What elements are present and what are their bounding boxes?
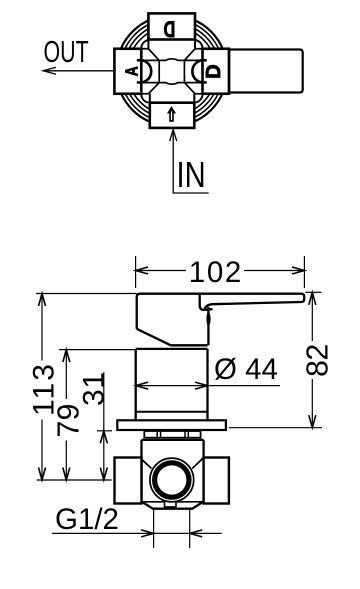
arrow 79 top [63, 350, 70, 363]
svg-text:Ø 44: Ø 44 [214, 353, 278, 386]
dim line 79 [65, 350, 67, 480]
svg-text:D: D [163, 16, 175, 41]
svg-text:IN: IN [177, 154, 206, 195]
inner band edge lines [141, 49, 202, 94]
cap chamfer [137, 329, 208, 346]
svg-text:A: A [122, 66, 142, 76]
ext line handle top (113) [36, 293, 137, 295]
port right (D) rectangle [203, 49, 229, 94]
mixer cap outline [137, 294, 213, 346]
arrow d44 right [195, 382, 208, 389]
valve shoulder lines [142, 501, 204, 503]
svg-text:31: 31 [77, 372, 110, 406]
funnel diagonals [148, 49, 195, 94]
lever handle [199, 294, 304, 309]
port top (D) rectangle [148, 13, 195, 39]
arrow 31 top [100, 431, 107, 444]
central pillow chamber [159, 59, 184, 84]
outlet circle thick ring [155, 463, 189, 497]
OUT arrow leader [43, 67, 114, 74]
svg-text:D: D [203, 64, 225, 78]
left side port [115, 458, 142, 504]
svg-text:79: 79 [52, 404, 86, 438]
port neck extensions [148, 40, 195, 103]
dim line 82 [311, 292, 313, 427]
arrow d44 left [136, 382, 149, 389]
arrow G1/2 left [141, 530, 154, 537]
left port opening arc [137, 60, 151, 82]
ext tick plate level (31) [97, 430, 112, 432]
arrow 82 bottom [309, 415, 316, 428]
right side port [204, 458, 229, 504]
corner fillet arcs between ports [141, 40, 202, 103]
outlet circle outer [150, 458, 194, 502]
body cylinder sides [136, 349, 208, 420]
arrowheads [39, 267, 316, 537]
arrow 102 right [292, 267, 305, 274]
body base seam [136, 411, 208, 413]
valve body (in-wall) [142, 440, 204, 509]
dim line diameter 44 [136, 385, 280, 387]
right port opening arc [192, 60, 206, 82]
IN arrow leader [170, 130, 209, 194]
handle (top view, right side) [229, 50, 303, 93]
ext line plate level (82) [229, 427, 322, 429]
ext tick lever top (82) [306, 291, 322, 293]
ext line 102 right [303, 256, 305, 288]
arrow 102 left [136, 267, 149, 274]
dim line 102 [136, 270, 305, 272]
lever pivot shadow [206, 312, 210, 325]
leader line G1/2 [52, 532, 222, 534]
svg-text:OUT: OUT [44, 34, 89, 69]
dim line 113 [41, 294, 43, 481]
svg-text:82: 82 [301, 344, 335, 377]
ext line body top (79) [59, 349, 136, 351]
hollow up-arrow glyph (bottom port) [167, 106, 176, 122]
arrow 113 top [39, 294, 46, 307]
arrow 31 bottom [100, 468, 107, 481]
ext line pipe axis (common base) [37, 479, 112, 481]
arrow 82 top [309, 292, 316, 305]
ext line 102 left [135, 256, 137, 288]
mounting flange strip [144, 431, 200, 438]
arrow 79 bottom [63, 468, 70, 481]
svg-text:102: 102 [189, 256, 242, 289]
valve body concentric circles [116, 15, 227, 126]
svg-text:G1/2: G1/2 [55, 503, 119, 536]
valve top chamfers [140, 458, 203, 469]
ext lines G1/2 [154, 509, 190, 548]
body top joint line [136, 348, 208, 350]
port bottom (inlet) rectangle [150, 103, 195, 128]
port left (A) rectangle [114, 49, 141, 94]
valve bottom notch [165, 502, 177, 509]
arrow 113 bottom [39, 468, 46, 481]
white cross mask over circles [114, 13, 228, 128]
escutcheon plate [117, 420, 226, 430]
arrow G1/2 right [190, 530, 203, 537]
dim line 31 [103, 372, 105, 480]
